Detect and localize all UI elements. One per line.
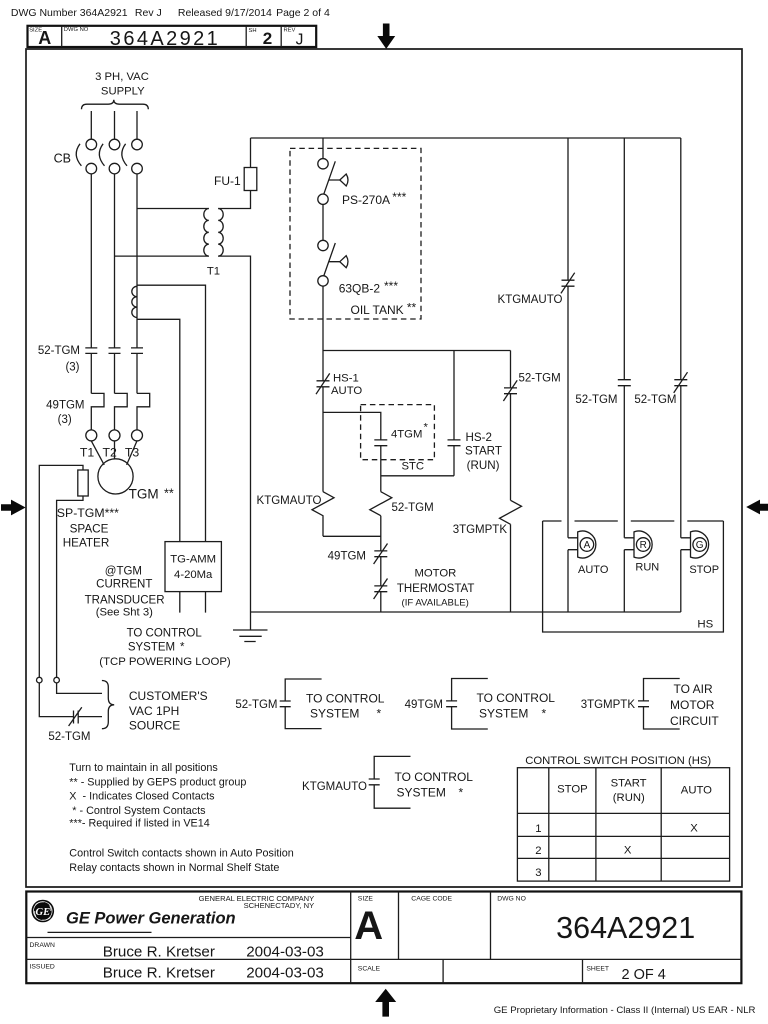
bottom center arrow [375,989,396,1017]
svg-text:ISSUED: ISSUED [30,963,55,970]
GE logo [32,900,55,923]
svg-text:SYSTEM: SYSTEM [397,786,446,800]
svg-text:SCALE: SCALE [358,965,381,972]
svg-text:Rev J: Rev J [135,7,162,19]
wire phase2 below 52-TGM [114,353,116,393]
control switch table grid [517,768,729,881]
customer source brace [102,681,114,729]
svg-text:3TGMPTK: 3TGMPTK [453,524,508,536]
contact HS-1 AUTO [316,373,330,394]
contact HS-2 [448,440,461,446]
svg-text:(See Sht 3): (See Sht 3) [96,606,153,618]
contact 52-TGM stop [674,372,688,393]
svg-text:TO CONTROL: TO CONTROL [477,691,556,705]
svg-text:*: * [542,706,547,720]
svg-text:SYSTEM: SYSTEM [479,706,528,720]
svg-text:DWG NO: DWG NO [497,895,526,902]
svg-text:GE Proprietary Information - C: GE Proprietary Information - Class II (I… [494,1005,756,1016]
svg-text:(TCP POWERING LOOP): (TCP POWERING LOOP) [99,656,231,668]
svg-text:THERMOSTAT: THERMOSTAT [397,583,475,595]
top title block outline [28,26,317,47]
fuse FU-1 [244,168,257,191]
svg-text:Released 9/17/2014: Released 9/17/2014 [178,7,272,19]
wire CT top lead [137,285,206,541]
svg-text:SIZE: SIZE [358,895,374,902]
right center arrow [746,500,768,515]
wire to lamp R [623,386,625,538]
svg-text:*: * [180,642,185,654]
svg-text:**: ** [164,487,174,501]
transducer box TG-AMM [165,542,221,592]
wire thermostat to ground rail [380,592,382,612]
svg-text:KTGMAUTO: KTGMAUTO [498,294,563,306]
svg-text:TG-AMM: TG-AMM [170,554,216,566]
svg-text:52-TGM: 52-TGM [38,345,80,357]
pressure switch PS-270A [318,159,328,169]
wire heater bottom lead [57,496,83,677]
svg-text:HS-2: HS-2 [466,431,492,444]
title block row lines [26,938,741,960]
lamp R (RUN) [624,531,652,558]
svg-text:FU-1: FU-1 [214,174,241,188]
wire secondary bottom to ground rail [218,256,250,612]
terminal customer source left [37,677,43,683]
motor TGM [98,459,133,494]
svg-text:CAGE CODE: CAGE CODE [411,895,452,902]
transformer T1 secondary winding [218,209,223,257]
wire rail to HS-1 [322,351,324,381]
wire HS-1 down to coil branch [322,387,324,492]
svg-text:SYSTEM: SYSTEM [310,707,359,721]
svg-text:SHEET: SHEET [586,965,609,972]
transformer T1 primary winding [204,209,209,257]
svg-text:4TGM: 4TGM [391,429,422,441]
svg-text:REV: REV [284,27,296,33]
svg-text:3 PH, VAC: 3 PH, VAC [95,71,149,83]
wire T3 to motor [127,441,137,465]
svg-text:364A2921: 364A2921 [556,911,695,945]
wire contact to brace [78,716,102,718]
wire HS-2 down [453,446,455,476]
svg-text:(RUN): (RUN) [467,459,500,472]
wire phase 3 [136,174,138,348]
svg-text:TGM: TGM [129,486,159,501]
svg-text:***- Required if listed in VE1: ***- Required if listed in VE14 [69,818,209,830]
svg-text:*: * [459,786,464,800]
svg-text:TO CONTROL: TO CONTROL [306,691,385,705]
svg-text:STOP: STOP [557,784,588,796]
svg-text:CB: CB [54,152,71,166]
breaker CB pole contacts [86,139,97,150]
contact 52-TGM phase3 [131,348,143,354]
svg-text:TO CONTROL: TO CONTROL [127,627,203,639]
svg-text:Page 2 of 4: Page 2 of 4 [276,7,330,19]
svg-text:CURRENT: CURRENT [96,579,152,591]
svg-text:Turn to maintain in all positi: Turn to maintain in all positions [69,762,218,774]
svg-text:Bruce R. Kretser: Bruce R. Kretser [103,943,215,960]
coil 52-TGM [370,492,392,516]
svg-text:4-20Ma: 4-20Ma [174,569,213,581]
wire rail corner to 52-TGM stop contact [680,138,682,380]
svg-text:(IF AVAILABLE): (IF AVAILABLE) [402,597,469,608]
wire coils join [323,516,381,551]
contact KTGMAUTO [561,273,575,294]
svg-text:1: 1 [535,823,541,835]
svg-text:***: *** [384,279,398,293]
wire rail to HS-2 [453,351,455,440]
breaker CB arcs [76,144,127,166]
overload 49TGM phase2 [115,393,128,429]
svg-text:(3): (3) [65,361,79,373]
svg-text:HEATER: HEATER [63,537,110,550]
wire TG-AMM output stubs [180,592,206,613]
svg-text:2: 2 [535,845,541,857]
svg-text:STOP: STOP [689,564,719,576]
current transformer @TGM winding [132,286,137,317]
wire 3TGMPTK to ground rail [510,524,512,612]
svg-text:49TGM: 49TGM [328,551,366,563]
wire primary bottom to phase2 [115,255,209,257]
contact 52-TGM phase1 [85,348,97,354]
lamp G (STOP) [681,531,709,558]
svg-text:CIRCUIT: CIRCUIT [670,714,719,728]
contact 3TGMPTK to air motor [638,679,680,730]
wire rail to 52-TGM run contact [623,138,625,380]
mid control rail [323,350,511,352]
svg-text:52-TGM: 52-TGM [575,394,617,406]
contact 49TGM to control system [446,679,488,730]
svg-text:TO CONTROL: TO CONTROL [395,770,474,784]
svg-text:63QB-2: 63QB-2 [339,282,381,296]
svg-text:X - Indicates Closed Contacts: X - Indicates Closed Contacts [69,791,215,803]
svg-text:TRANSDUCER: TRANSDUCER [85,595,165,607]
wire lamp R to ground rail [623,550,625,612]
svg-text:SP-TGM***: SP-TGM*** [57,506,119,520]
svg-text:VAC 1PH: VAC 1PH [129,704,179,718]
svg-text:Bruce R. Kretser: Bruce R. Kretser [103,965,215,982]
HS lamp box outline [543,521,724,632]
svg-text:HS: HS [697,619,713,631]
lamp A (AUTO) [568,531,596,558]
svg-text:START: START [611,778,647,790]
wire phase 1 [90,174,92,348]
bottom title block outline [26,892,741,984]
wire heater top lead [39,465,83,677]
svg-text:GE: GE [36,907,51,918]
contact motor thermostat [374,579,388,600]
svg-text:**: ** [407,300,417,314]
svg-text:A: A [38,28,51,48]
wire to 3TGMPTK coil [510,394,512,501]
terminal T2 [109,430,120,441]
svg-text:3: 3 [535,867,541,879]
svg-text:2004-03-03: 2004-03-03 [246,943,324,960]
svg-text:DWG NO: DWG NO [64,27,89,33]
wire junction to HS-2 [381,475,454,477]
wire lower lead to 52-TGM contact [39,683,73,717]
wire upper lead to brace [57,683,102,694]
svg-text:T1: T1 [80,445,95,459]
ground rail [251,611,681,613]
contact 52-TGM run [618,380,631,386]
svg-text:MOTOR: MOTOR [670,698,715,712]
svg-text:Control Switch contacts shown: Control Switch contacts shown in Auto Po… [69,848,293,860]
title block main divider [350,892,352,984]
oil tank dashed box [290,148,421,319]
contact 4TGM [374,440,387,446]
svg-text:X: X [624,845,632,857]
svg-text:(3): (3) [58,414,72,426]
svg-text:*: * [377,707,382,721]
top control rail [251,137,681,139]
svg-text:STC: STC [402,460,425,472]
svg-text:SUPPLY: SUPPLY [101,86,145,98]
svg-text:CUSTOMER'S: CUSTOMER'S [129,689,208,703]
contact 52-TGM ptk branch [503,380,517,401]
svg-text:3TGMPTK: 3TGMPTK [581,699,636,711]
svg-text:2 OF 4: 2 OF 4 [622,967,666,983]
wire 4TGM down [380,446,382,492]
drawing border frame [26,49,742,887]
svg-text:SPACE: SPACE [70,522,109,535]
svg-text:2: 2 [263,29,272,48]
svg-text:R: R [640,540,647,551]
svg-text:G: G [696,540,704,551]
wire lamp G to ground rail [680,550,682,612]
svg-text:@TGM: @TGM [105,565,142,577]
svg-text:AUTO: AUTO [578,564,609,576]
contact KTGMAUTO to control system [369,756,411,808]
svg-text:HS-1: HS-1 [333,372,359,384]
terminal customer source right [54,677,60,683]
svg-text:(RUN): (RUN) [613,792,645,804]
svg-text:***: *** [392,190,406,204]
svg-text:SYSTEM: SYSTEM [128,642,175,654]
svg-text:KTGMAUTO: KTGMAUTO [257,495,322,507]
contact 52-TGM to control system [280,679,322,729]
svg-text:52-TGM: 52-TGM [235,699,277,711]
wire 49TGM to thermostat [380,557,382,586]
svg-text:49TGM: 49TGM [405,699,443,711]
svg-text:52-TGM: 52-TGM [48,731,90,743]
supply brace [82,100,149,110]
wire rail to PS-270A [322,138,324,159]
coil KTGMAUTO [312,492,334,537]
svg-text:49TGM: 49TGM [46,399,84,411]
svg-text:** - Supplied by GEPS product: ** - Supplied by GEPS product group [69,776,246,788]
wire fuse to top rail [250,138,252,168]
ground symbol [233,612,268,642]
wire PS-270A to 63QB-2 [322,204,324,240]
svg-text:52-TGM: 52-TGM [634,394,676,406]
svg-text:52-TGM: 52-TGM [392,502,434,514]
svg-text:KTGMAUTO: KTGMAUTO [302,781,367,793]
coil 3TGMPTK [500,500,522,524]
svg-text:* - Control System Contacts: * - Control System Contacts [69,805,206,817]
top center arrow [377,24,395,49]
svg-text:OIL TANK: OIL TANK [351,303,404,317]
svg-text:T1: T1 [207,266,220,278]
contact 52-TGM customer line [69,707,82,726]
wire rail corner to 52-TGM contact [510,351,512,388]
svg-text:GE Power Generation: GE Power Generation [66,910,236,928]
svg-text:SCHENECTADY, NY: SCHENECTADY, NY [244,901,315,910]
svg-text:DRAWN: DRAWN [30,942,56,949]
svg-text:J: J [296,32,304,49]
wire T2 to motor [114,441,116,459]
GE Power underline [48,931,152,933]
svg-text:SH: SH [249,28,257,34]
wire lamp A to ground rail [567,550,569,612]
svg-text:2004-03-03: 2004-03-03 [246,965,324,982]
wire phase3 to primary [137,208,209,210]
svg-text:A: A [354,904,383,948]
wire KTGMAUTO to lamp A [567,286,569,538]
svg-text:START: START [465,445,502,458]
title block right dividers [399,892,583,984]
svg-text:CONTROL SWITCH POSITION (HS): CONTROL SWITCH POSITION (HS) [525,755,711,767]
svg-text:A: A [584,540,591,551]
svg-text:TO AIR: TO AIR [674,682,713,696]
svg-text:AUTO: AUTO [331,385,362,397]
wire T1 to motor [91,441,104,465]
overload 49TGM phase1 [91,393,104,429]
wire phase3 below 52-TGM [136,353,138,393]
wire to lamp G [680,386,682,538]
svg-text:364A2921: 364A2921 [110,28,220,50]
wire secondary top to fuse [218,191,250,209]
svg-text:*: * [424,422,429,434]
wire CT bottom lead [137,319,180,541]
svg-text:52-TGM: 52-TGM [519,373,561,385]
svg-text:Relay contacts shown in Normal: Relay contacts shown in Normal Shelf Sta… [69,862,279,874]
left center arrow [1,500,26,516]
space heater SP-TGM [78,470,88,496]
top title block dividers [62,26,282,47]
wire branch to 4TGM [323,412,381,440]
contact 49TGM [374,544,388,565]
svg-text:SOURCE: SOURCE [129,719,180,733]
svg-text:MOTOR: MOTOR [414,567,456,579]
svg-text:X: X [690,823,698,835]
svg-text:AUTO: AUTO [681,785,712,797]
contact 52-TGM phase2 [109,348,121,354]
overload 49TGM phase3 [137,393,150,429]
svg-text:PS-270A: PS-270A [342,193,390,207]
wire rail to KTGMAUTO contact [567,138,569,280]
terminal T3 [132,430,143,441]
STC dashed box [361,405,435,460]
wire supply drops [91,111,137,139]
wire phase1 below 52-TGM [90,353,92,393]
svg-text:DWG Number 364A2921: DWG Number 364A2921 [11,7,128,19]
wire phase 2 [114,174,116,348]
pressure switch 63QB-2 [318,240,328,250]
svg-text:RUN: RUN [635,562,659,574]
terminal T1 [86,430,97,441]
wire 63QB-2 to mid rail [322,286,324,350]
